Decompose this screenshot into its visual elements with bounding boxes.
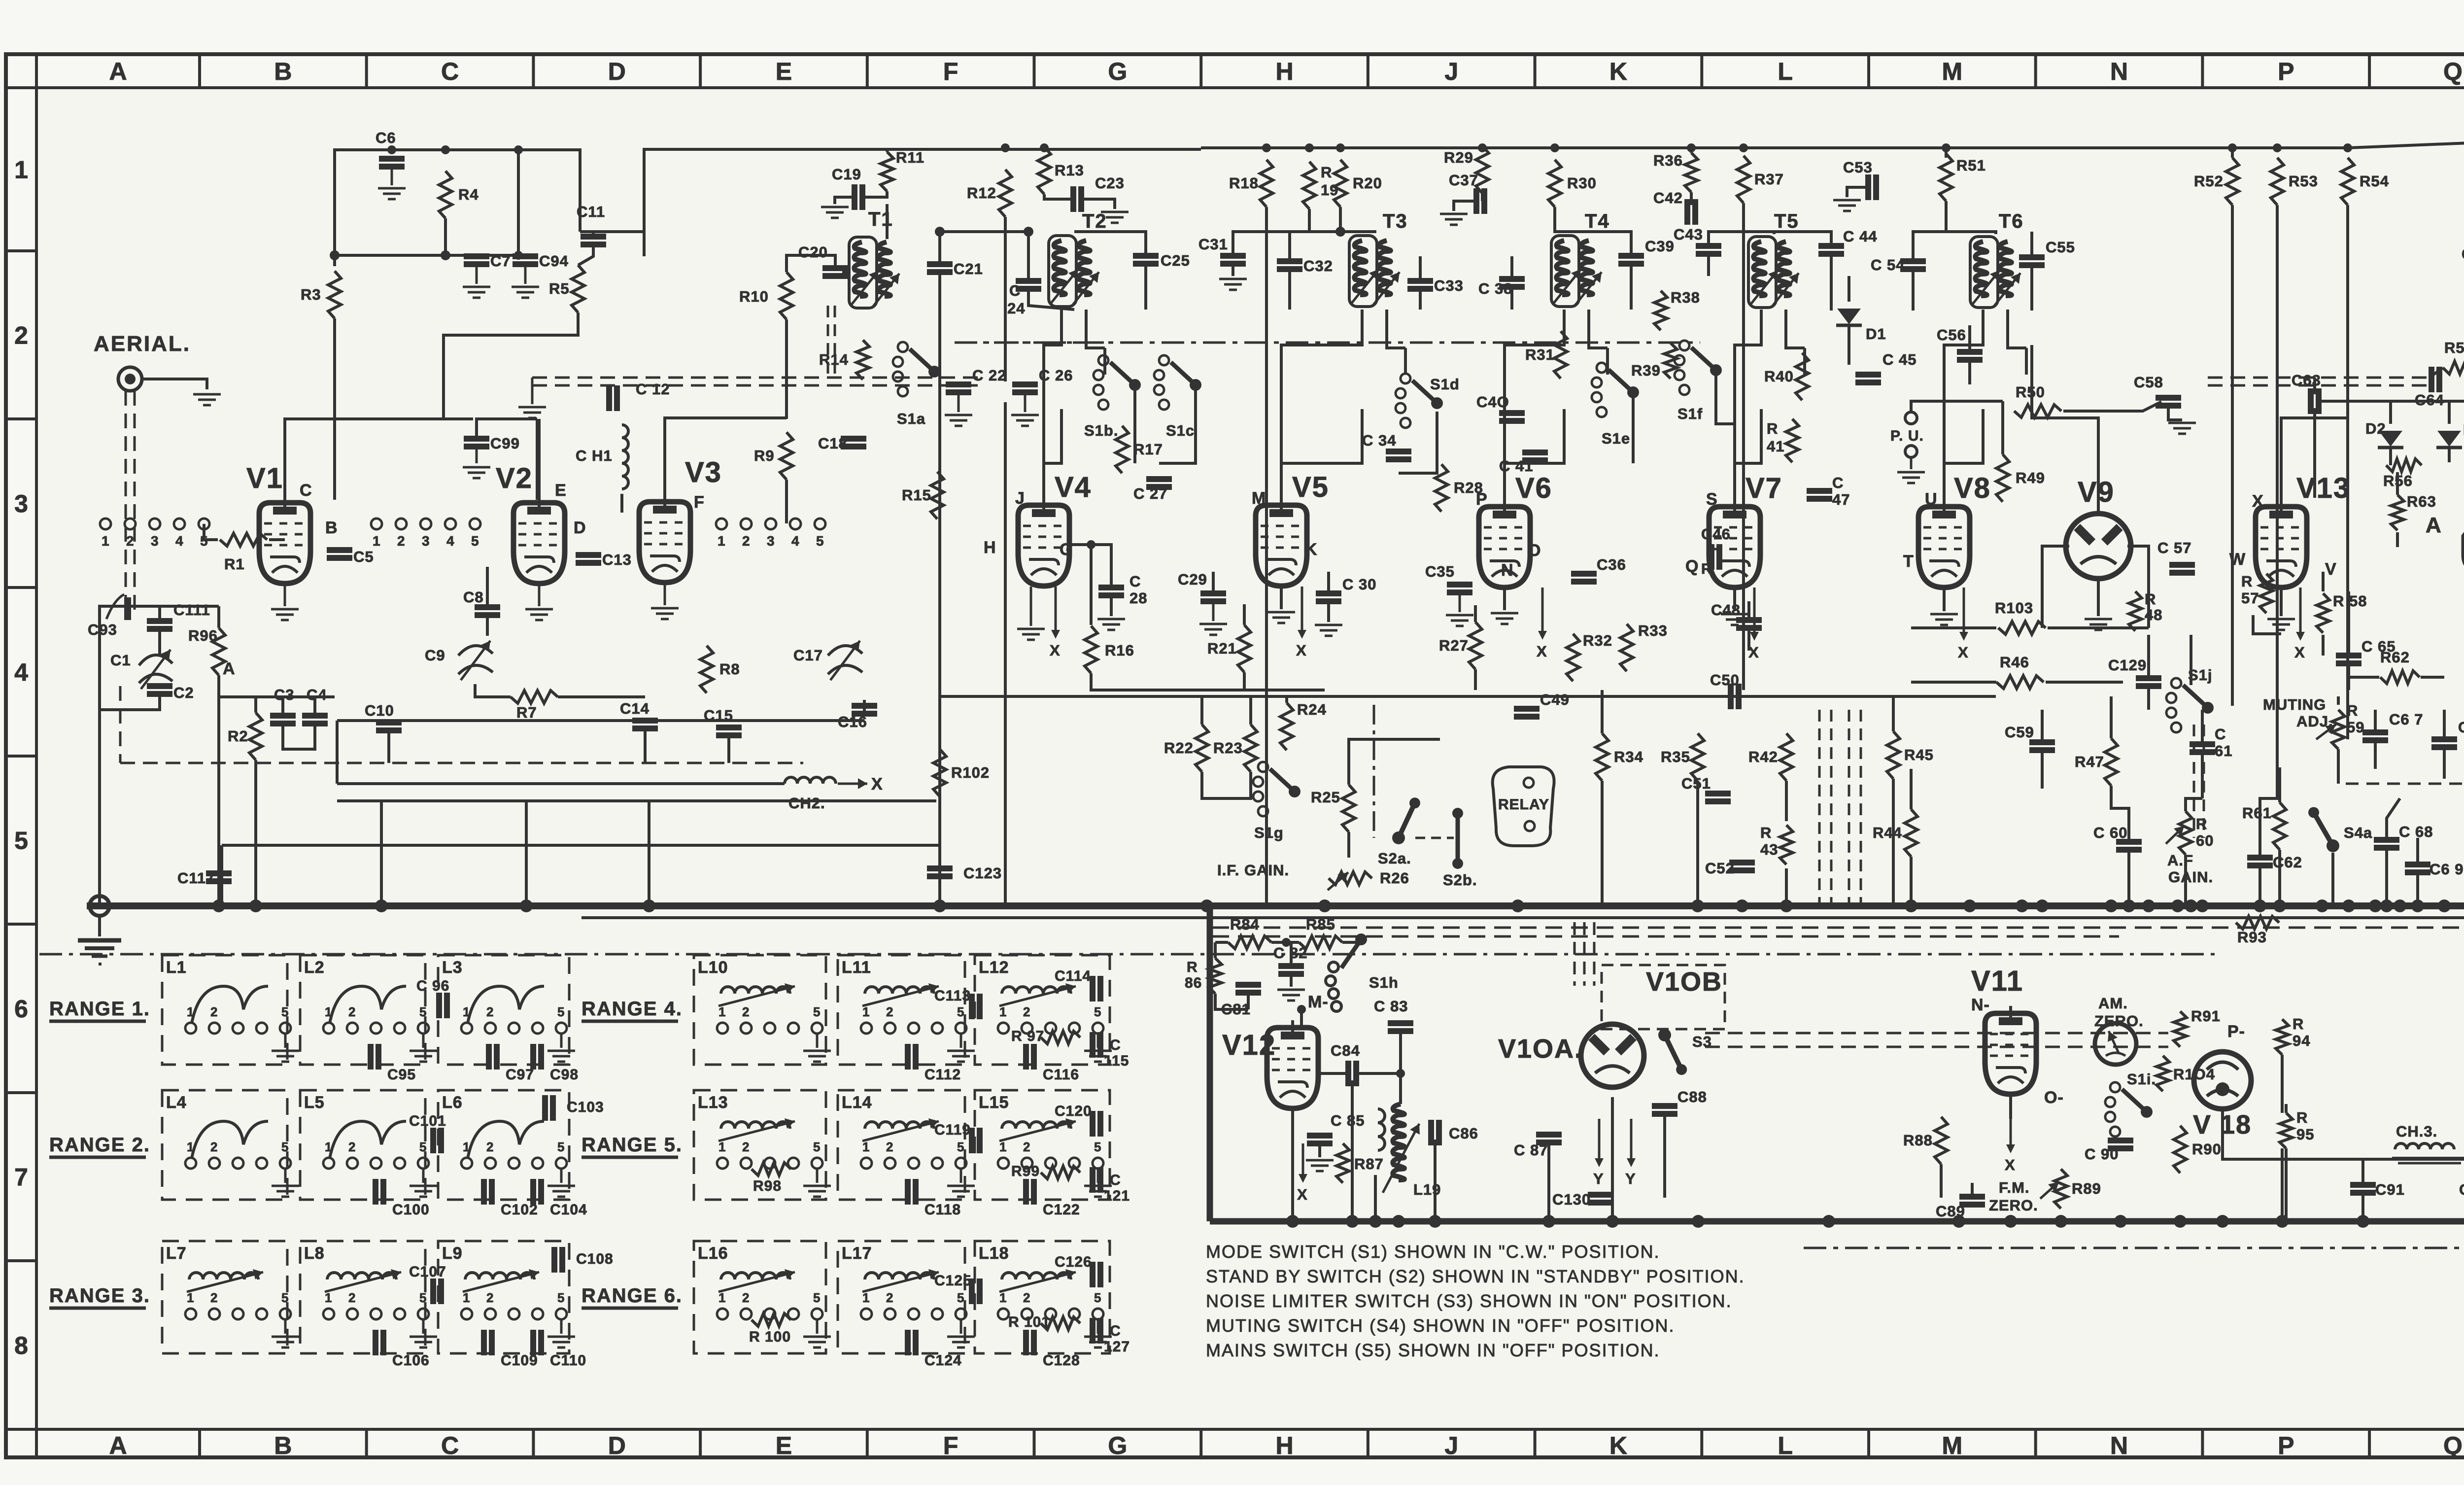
svg-text:A: A xyxy=(2426,513,2442,537)
svg-text:C: C xyxy=(1110,1172,1121,1188)
svg-text:AM.: AM. xyxy=(2098,995,2128,1012)
svg-text:5: 5 xyxy=(419,1004,427,1019)
bus junction xyxy=(1511,899,1524,912)
resistor R103 xyxy=(1998,622,2046,634)
svg-text:2: 2 xyxy=(14,322,28,349)
resistor R40 xyxy=(1796,353,1809,400)
svg-text:2: 2 xyxy=(486,1290,494,1305)
capacitor C81 xyxy=(1235,982,1261,988)
svg-text:5: 5 xyxy=(281,1140,289,1154)
bus junction xyxy=(2142,899,2155,912)
svg-text:A: A xyxy=(109,58,127,85)
svg-text:L11: L11 xyxy=(842,958,871,977)
svg-text:C1: C1 xyxy=(110,652,131,669)
capacitor C46 xyxy=(1709,544,1714,570)
svg-text:R87: R87 xyxy=(1354,1155,1384,1173)
resistor R23 xyxy=(1244,725,1257,772)
wire rail 1715 xyxy=(222,844,939,847)
svg-text:E: E xyxy=(776,1432,792,1459)
svg-text:C95: C95 xyxy=(387,1067,416,1083)
wire CH1 xyxy=(620,494,623,513)
resistor R52 xyxy=(2226,158,2239,205)
svg-text:C11: C11 xyxy=(577,203,605,220)
svg-text:T2: T2 xyxy=(1082,210,1107,232)
range coil box L2 xyxy=(300,955,425,1065)
arrow X xyxy=(1302,1143,1304,1175)
bus junction xyxy=(1692,1215,1705,1228)
bus junction xyxy=(375,899,388,912)
svg-text:STAND BY SWITCH (S2) SHOWN IN: STAND BY SWITCH (S2) SHOWN IN "STANDBY" … xyxy=(1206,1266,1745,1286)
bus junction xyxy=(1780,899,1793,912)
svg-text:C55: C55 xyxy=(2046,239,2075,256)
capacitor C19 xyxy=(852,184,857,210)
svg-text:C35: C35 xyxy=(1425,563,1455,580)
svg-text:MODE SWITCH (S1) SHOWN IN: MODE SWITCH (S1) SHOWN IN "C.W." POSITIO… xyxy=(1206,1242,1660,1262)
resistor R54 xyxy=(2341,158,2354,205)
svg-text:4: 4 xyxy=(175,533,184,549)
svg-text:R27: R27 xyxy=(1439,637,1469,654)
svg-text:C H1: C H1 xyxy=(576,447,613,464)
capacitor C23 xyxy=(1070,186,1076,212)
svg-text:R20: R20 xyxy=(1353,174,1382,192)
wire D2 D3 row xyxy=(2389,401,2392,424)
wire below-bus line xyxy=(582,916,2464,919)
range coil box L6 xyxy=(438,1090,569,1200)
coil L10 xyxy=(721,987,790,994)
svg-text:V12: V12 xyxy=(1222,1029,1276,1061)
wire A.F gain col xyxy=(2184,855,2187,906)
wire muting column xyxy=(2337,749,2340,784)
svg-text:A: A xyxy=(223,659,236,678)
wire below-bus dashed 1 xyxy=(1212,927,2464,929)
capacitor C28 xyxy=(1098,585,1124,590)
svg-text:94: 94 xyxy=(2293,1032,2310,1049)
capacitor C91 xyxy=(2350,1182,2376,1188)
svg-text:C 44: C 44 xyxy=(1843,228,1877,245)
svg-text:R13: R13 xyxy=(1055,162,1084,179)
capacitor C15 xyxy=(716,725,742,730)
svg-text:1: 1 xyxy=(14,156,28,184)
wire y1411 long xyxy=(940,695,1440,698)
IF transformer T4 xyxy=(1551,236,1579,307)
svg-text:2: 2 xyxy=(348,1004,356,1019)
capacitor C47 xyxy=(1807,488,1832,494)
svg-text:J: J xyxy=(1444,1432,1458,1459)
svg-text:5: 5 xyxy=(957,1140,964,1154)
svg-text:K: K xyxy=(1305,540,1318,559)
svg-text:24: 24 xyxy=(1007,300,1025,317)
bus junction xyxy=(2438,899,2451,912)
svg-text:F.M.: F.M. xyxy=(1999,1179,2030,1196)
svg-text:H: H xyxy=(1275,1432,1293,1459)
capacitor C119 xyxy=(969,1128,975,1153)
coil L15 xyxy=(1002,1122,1071,1129)
svg-text:F: F xyxy=(943,58,958,85)
coil L2 xyxy=(330,986,406,1023)
bus junction xyxy=(933,899,946,912)
capacitor C26 xyxy=(1012,381,1038,387)
svg-text:47: 47 xyxy=(1832,491,1850,508)
svg-text:C 30: C 30 xyxy=(1342,576,1376,593)
wire bias nets xyxy=(335,254,525,257)
coil L14 xyxy=(865,1122,934,1129)
svg-text:C: C xyxy=(1110,1323,1121,1339)
svg-text:4: 4 xyxy=(791,533,800,549)
svg-text:E: E xyxy=(776,58,792,85)
svg-text:C43: C43 xyxy=(1674,226,1703,243)
resistor R34 xyxy=(1596,733,1608,781)
svg-text:2: 2 xyxy=(742,533,751,549)
svg-text:C116: C116 xyxy=(1043,1067,1079,1083)
svg-text:H: H xyxy=(1275,58,1293,85)
svg-text:S1e: S1e xyxy=(1602,430,1630,447)
svg-text:M: M xyxy=(1942,1432,1963,1459)
resistor R22 xyxy=(1196,725,1208,772)
svg-text:2: 2 xyxy=(1023,1290,1030,1305)
range coil box L17 xyxy=(838,1241,965,1353)
variable capacitor C9 xyxy=(458,646,493,656)
svg-text:C31: C31 xyxy=(1198,236,1228,253)
capacitor C68 xyxy=(2374,837,2399,843)
wire top HT rail left xyxy=(335,150,580,266)
capacitor C11 xyxy=(581,234,606,240)
wire top HT rail right xyxy=(2348,142,2464,148)
svg-text:U: U xyxy=(1925,490,1938,509)
IF transformer T6 xyxy=(1970,237,1998,308)
resistor R21 xyxy=(1238,625,1251,672)
pins/grounds under V2 xyxy=(538,584,541,606)
svg-text:R89: R89 xyxy=(2072,1180,2101,1197)
svg-text:C 87: C 87 xyxy=(1514,1141,1548,1159)
capacitor C40 xyxy=(1499,410,1525,416)
arrow X xyxy=(1963,587,1965,633)
wire x4865 column xyxy=(2396,472,2399,495)
wire dashed S1j column xyxy=(2193,725,2195,838)
svg-text:C92: C92 xyxy=(2459,1181,2464,1198)
svg-text:L5: L5 xyxy=(304,1093,325,1112)
capacitor C114 xyxy=(1090,976,1095,1002)
svg-text:RANGE 5.: RANGE 5. xyxy=(582,1134,683,1156)
capacitor C49 xyxy=(1514,706,1540,712)
wire C63 to V13 xyxy=(2313,408,2316,498)
svg-text:2: 2 xyxy=(348,1140,356,1154)
pins/grounds under V3 xyxy=(664,583,666,605)
svg-text:R99: R99 xyxy=(1011,1163,1040,1179)
svg-text:5: 5 xyxy=(557,1290,565,1305)
svg-text:5: 5 xyxy=(957,1004,964,1019)
capacitor C7 xyxy=(464,253,489,259)
svg-text:C103: C103 xyxy=(567,1099,604,1115)
svg-text:C125: C125 xyxy=(934,1273,972,1289)
svg-text:C128: C128 xyxy=(1043,1352,1080,1369)
resistor R20 xyxy=(1334,160,1347,207)
coil L8 xyxy=(327,1273,396,1279)
capacitor C30 xyxy=(1316,590,1341,596)
bus junction xyxy=(2004,1215,2017,1228)
svg-text:B: B xyxy=(325,518,338,537)
svg-text:C100: C100 xyxy=(392,1202,430,1218)
wires V13 area xyxy=(2280,587,2283,616)
svg-text:C50: C50 xyxy=(1710,671,1740,689)
svg-text:5: 5 xyxy=(813,1140,821,1154)
svg-text:NOISE LIMITER SWITCH (S3) SHOW: NOISE LIMITER SWITCH (S3) SHOWN IN "ON" … xyxy=(1206,1291,1732,1311)
bus junction xyxy=(643,899,655,912)
IF transformer T3 xyxy=(1349,236,1377,307)
svg-text:7: 7 xyxy=(14,1164,28,1191)
wire rotary drops xyxy=(1133,389,1136,463)
svg-text:L7: L7 xyxy=(166,1244,187,1263)
svg-text:D2: D2 xyxy=(2365,420,2386,437)
bus junction xyxy=(2036,899,2049,912)
range coil box L18 xyxy=(975,1241,1110,1353)
bus junction xyxy=(212,899,225,912)
ground symbol main xyxy=(78,938,121,943)
capacitor C38 xyxy=(1499,276,1525,282)
IF transformer T1 xyxy=(849,237,877,308)
svg-text:5: 5 xyxy=(813,1004,821,1019)
capacitor C97 xyxy=(486,1044,492,1070)
svg-text:2: 2 xyxy=(742,1290,750,1305)
letter strip bottom xyxy=(6,1428,2464,1431)
svg-text:R: R xyxy=(2145,590,2156,608)
svg-text:C 96: C 96 xyxy=(416,978,449,994)
resistor R51 xyxy=(1940,154,1952,201)
svg-text:59: 59 xyxy=(2347,719,2364,736)
capacitor C88 xyxy=(1652,1103,1677,1109)
ground xyxy=(271,608,299,611)
svg-text:R21: R21 xyxy=(1207,640,1237,657)
svg-text:R53: R53 xyxy=(2289,173,2318,190)
tube V12 xyxy=(1267,1028,1318,1108)
resistor R9 xyxy=(780,432,793,480)
wire V18 V19 row xyxy=(2223,1109,2464,1159)
capacitor C18 xyxy=(841,436,866,442)
resistor R32 xyxy=(1567,634,1579,681)
svg-text:127: 127 xyxy=(1104,1339,1130,1355)
wire dashed C47 columns xyxy=(1818,710,1821,905)
capacitor C29 xyxy=(1200,590,1226,596)
wires C48 xyxy=(1747,601,1750,617)
svg-text:1: 1 xyxy=(187,1004,194,1019)
tube V6 xyxy=(1479,507,1530,587)
capacitor C36 xyxy=(1571,571,1597,577)
number strip left xyxy=(35,54,38,1457)
svg-text:C23: C23 xyxy=(1095,174,1125,192)
coil socket V1 grid coil xyxy=(100,518,111,529)
capacitor C94 xyxy=(513,253,538,259)
svg-text:1: 1 xyxy=(325,1290,332,1305)
svg-text:R62: R62 xyxy=(2380,649,2410,666)
svg-text:1: 1 xyxy=(862,1290,870,1305)
bus junction xyxy=(2185,899,2197,912)
wire R1 to V1 xyxy=(204,524,218,540)
switch S1a xyxy=(898,342,908,352)
svg-text:C52: C52 xyxy=(1705,860,1735,877)
ground xyxy=(378,187,406,190)
capacitor C41 xyxy=(1522,449,1548,455)
svg-text:R24: R24 xyxy=(1297,701,1327,718)
meter AM ZERO xyxy=(2095,1023,2136,1065)
svg-text:5: 5 xyxy=(419,1290,427,1305)
coil L11 xyxy=(865,987,934,994)
svg-text:2: 2 xyxy=(486,1140,494,1154)
svg-text:5: 5 xyxy=(957,1290,964,1305)
capacitor C55 xyxy=(2019,254,2045,260)
svg-text:C112: C112 xyxy=(924,1067,961,1083)
svg-text:4: 4 xyxy=(446,533,455,549)
switch S2a xyxy=(1392,831,1405,844)
svg-text:I.F. GAIN.: I.F. GAIN. xyxy=(1217,862,1289,879)
wires long feeders xyxy=(2231,205,2234,706)
resistor R2 xyxy=(249,713,262,760)
capacitor C6 xyxy=(379,156,405,162)
capacitor C24 xyxy=(1016,278,1041,284)
svg-text:R98: R98 xyxy=(753,1178,782,1194)
svg-text:C114: C114 xyxy=(1055,968,1091,984)
svg-text:V9: V9 xyxy=(2078,476,2115,508)
svg-text:2: 2 xyxy=(210,1290,218,1305)
svg-text:N: N xyxy=(1501,561,1514,580)
wires V4 stage xyxy=(1004,217,1007,381)
svg-text:N-: N- xyxy=(1971,996,1990,1014)
bus junction xyxy=(2105,899,2118,912)
dashed box V10B xyxy=(1602,965,1725,1029)
capacitor C59 xyxy=(2029,739,2055,745)
svg-text:D: D xyxy=(608,1432,626,1459)
wire R52-54 tops tie xyxy=(2231,148,2234,158)
svg-text:2: 2 xyxy=(210,1140,218,1154)
svg-text:T3: T3 xyxy=(1383,210,1408,232)
svg-text:L14: L14 xyxy=(842,1093,872,1112)
svg-text:R: R xyxy=(1760,824,1772,841)
potentiometer R59 xyxy=(2332,710,2345,749)
wire below-bus dashed 2 xyxy=(1212,935,2119,938)
resistor R85 xyxy=(1299,936,1342,949)
svg-text:Q: Q xyxy=(1685,557,1699,576)
svg-text:1: 1 xyxy=(187,1140,194,1154)
wire top HT rail middle xyxy=(644,149,1201,256)
svg-text:C53: C53 xyxy=(1843,159,1873,176)
svg-text:2: 2 xyxy=(348,1290,356,1305)
svg-text:C110: C110 xyxy=(550,1352,586,1369)
capacitor C127 xyxy=(1090,1318,1095,1344)
svg-text:95: 95 xyxy=(2296,1126,2314,1143)
svg-text:2: 2 xyxy=(1023,1004,1030,1019)
svg-text:RANGE 3.: RANGE 3. xyxy=(49,1285,150,1307)
svg-text:R85: R85 xyxy=(1306,916,1335,933)
switch S1g xyxy=(1258,762,1268,772)
bus junction xyxy=(2054,1215,2067,1228)
tube V3 xyxy=(639,502,690,583)
svg-text:C97: C97 xyxy=(506,1067,534,1083)
bus junction xyxy=(1691,899,1704,912)
svg-text:R46: R46 xyxy=(2000,654,2029,671)
capacitor C60 xyxy=(2116,839,2142,845)
diode D1 xyxy=(1837,309,1861,324)
capacitor C117 xyxy=(206,870,232,876)
bus junction xyxy=(2122,899,2135,912)
range coil box L15 xyxy=(975,1090,1110,1200)
tube V11 xyxy=(1985,1013,2036,1094)
svg-text:C104: C104 xyxy=(550,1202,587,1218)
wires mid-left tuned circuits xyxy=(486,618,489,636)
tube V4 xyxy=(1018,505,1069,586)
resistor R28 xyxy=(1435,464,1448,512)
svg-text:C 12: C 12 xyxy=(636,380,670,398)
resistor R93 xyxy=(2236,916,2279,929)
resistor R18 xyxy=(1260,160,1273,207)
svg-text:J: J xyxy=(1015,489,1025,508)
resistor R90 xyxy=(2174,1126,2187,1173)
wires S2 area xyxy=(1200,696,1203,725)
capacitor C35 xyxy=(1447,582,1472,587)
svg-text:C124: C124 xyxy=(924,1352,962,1369)
tube V18 xyxy=(2194,1052,2251,1109)
bus junction xyxy=(1736,899,1748,912)
svg-text:C123: C123 xyxy=(963,864,1002,882)
resistor R45 xyxy=(1887,731,1900,779)
wire dashdot gang xyxy=(955,342,1700,344)
capacitor C57 xyxy=(2169,562,2195,568)
svg-text:5: 5 xyxy=(419,1140,427,1154)
svg-text:1: 1 xyxy=(325,1140,332,1154)
capacitor C52 xyxy=(1729,860,1755,865)
wire IFT secondary to tube grid xyxy=(1361,310,1364,345)
capacitor C82 xyxy=(1278,963,1304,969)
bus junction xyxy=(2016,899,2028,912)
svg-text:R: R xyxy=(2196,815,2207,832)
svg-text:C33: C33 xyxy=(1434,277,1464,294)
capacitor C115 xyxy=(1090,1032,1095,1058)
range coil box L11 xyxy=(838,955,965,1065)
svg-text:C39: C39 xyxy=(1645,238,1675,255)
svg-text:L17: L17 xyxy=(842,1244,872,1263)
svg-text:R90: R90 xyxy=(2192,1140,2222,1158)
wire dashed AVC left xyxy=(120,762,803,764)
bus junction xyxy=(1286,1215,1299,1228)
capacitor C62 xyxy=(2247,855,2273,861)
svg-text:R36: R36 xyxy=(1653,152,1683,169)
bus junction xyxy=(1369,1215,1382,1228)
svg-text:C10: C10 xyxy=(365,702,394,719)
bus junction xyxy=(1392,1215,1405,1228)
svg-text:T5: T5 xyxy=(1774,210,1799,232)
svg-text:R2: R2 xyxy=(228,727,248,745)
range coil box L14 xyxy=(838,1090,965,1200)
capacitor C112 xyxy=(905,1044,911,1070)
svg-text:C37: C37 xyxy=(1449,172,1478,189)
svg-text:C17: C17 xyxy=(793,647,823,664)
svg-text:5: 5 xyxy=(816,533,824,549)
svg-text:D1: D1 xyxy=(1866,325,1886,343)
resistor R16 xyxy=(1085,626,1097,673)
svg-text:1: 1 xyxy=(862,1004,870,1019)
capacitor C126 xyxy=(1090,1262,1095,1287)
svg-text:C25: C25 xyxy=(1161,252,1190,269)
svg-text:4: 4 xyxy=(14,658,28,686)
resistor R55 xyxy=(2443,361,2464,374)
svg-text:C 22: C 22 xyxy=(972,367,1006,384)
relay xyxy=(1493,767,1554,846)
resistor R97 xyxy=(1041,1031,1080,1044)
wire C66 C67 cols xyxy=(2374,743,2377,769)
svg-text:S1d: S1d xyxy=(1430,376,1460,393)
svg-text:C126: C126 xyxy=(1055,1254,1092,1270)
svg-text:1: 1 xyxy=(999,1140,1007,1154)
resistor R86 xyxy=(1209,958,1222,994)
capacitor C14 xyxy=(632,718,658,724)
svg-text:S1c: S1c xyxy=(1166,422,1195,439)
